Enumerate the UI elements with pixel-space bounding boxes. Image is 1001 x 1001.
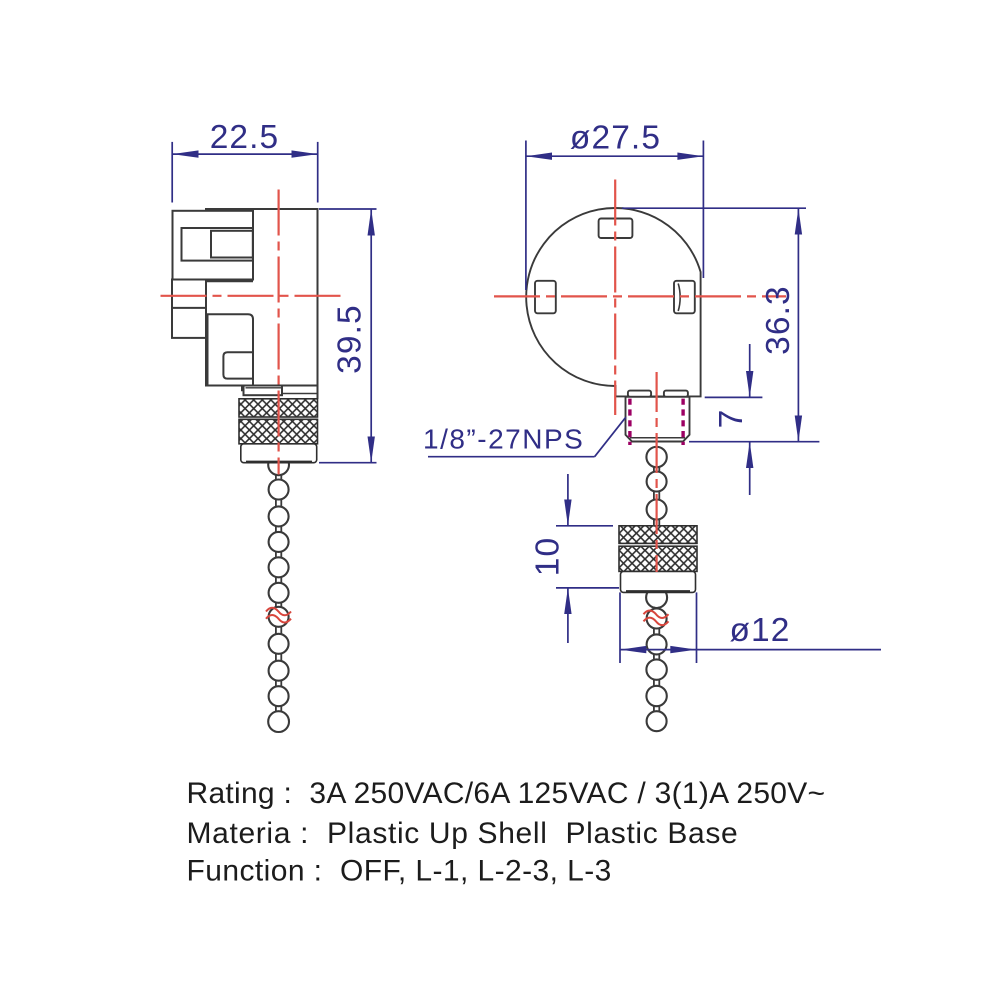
svg-text:ø27.5: ø27.5 [570,120,661,157]
svg-text:Rating : 3A 250VAC/6A 125VAC: Rating : 3A 250VAC/6A 125VAC / 3(1)A 250… [187,777,826,810]
svg-text:39.5: 39.5 [332,304,369,374]
svg-text:36.3: 36.3 [760,285,797,355]
svg-text:1/8”-27NPS: 1/8”-27NPS [423,424,584,455]
svg-text:22.5: 22.5 [210,119,280,156]
svg-text:10: 10 [530,537,567,576]
svg-text:7: 7 [713,409,750,429]
svg-text:ø12: ø12 [729,612,790,649]
svg-text:Materia : Plastic Up Shell P: Materia : Plastic Up Shell Plastic Base [187,817,739,850]
svg-text:Function : OFF, L-1, L-2-3, L: Function : OFF, L-1, L-2-3, L-3 [187,855,612,888]
